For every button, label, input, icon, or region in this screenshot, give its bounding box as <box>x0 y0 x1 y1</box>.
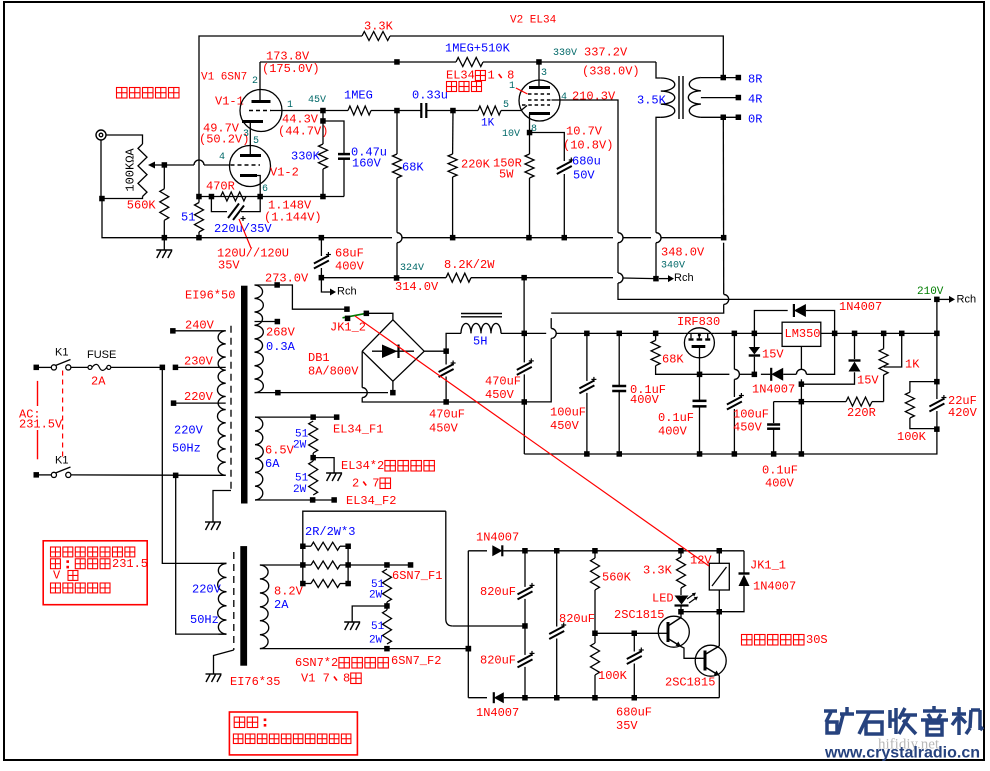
svg-text:6SN7_F2: 6SN7_F2 <box>391 654 441 668</box>
svg-text:V1 6SN7: V1 6SN7 <box>201 72 247 84</box>
wire hop to out leg <box>806 333 834 374</box>
transformer EI96 shield dashed <box>230 326 232 491</box>
label 210V <box>917 286 944 298</box>
EI96 HV winding <box>255 285 264 393</box>
junction jack ground <box>99 196 105 202</box>
wire jack sleeve down <box>100 140 102 199</box>
svg-text:560K: 560K <box>127 199 157 213</box>
junction 210V out <box>934 297 940 303</box>
watermark hifidiy <box>878 737 940 753</box>
wire to EL34 plate node <box>483 61 656 63</box>
svg-text:(44.7V): (44.7V) <box>278 124 328 138</box>
svg-text:3.3K: 3.3K <box>364 19 394 33</box>
svg-text:68uF: 68uF <box>335 246 364 260</box>
svg-text:3.5K: 3.5K <box>637 93 667 107</box>
label EL34_F1 <box>333 422 383 436</box>
wire 68K gate leads <box>655 333 657 340</box>
wire 68uF bottom <box>320 268 322 278</box>
junction bus 150R <box>526 235 532 241</box>
svg-text:6: 6 <box>262 184 268 195</box>
label DB1 <box>308 351 330 365</box>
label JK1_2 <box>330 320 366 334</box>
junction cathode node <box>257 194 263 200</box>
wire 220u loop <box>211 197 227 212</box>
svg-text:50Hz: 50Hz <box>172 441 201 455</box>
junction 0R ground <box>721 115 727 121</box>
wire 2R a leads <box>303 545 311 547</box>
junction 314V node <box>319 275 325 281</box>
resistor 3.3K feedback <box>362 32 390 41</box>
wire 820c top <box>556 551 558 627</box>
label 150R <box>493 156 522 170</box>
wire 3.3K to OPT 8R tap <box>390 36 723 78</box>
ground symbol EI76 <box>206 674 222 682</box>
wire 0.33u to 220K node <box>426 110 453 112</box>
label pin 6 <box>262 184 268 195</box>
wire 8.2V bottom tap <box>260 648 468 650</box>
wire wiper to grid V1-2 part2 <box>204 164 230 166</box>
wire pin8 to 680u <box>530 133 565 162</box>
junction rail 1K tap <box>899 331 905 337</box>
label 470uF first <box>429 407 465 421</box>
wire 150R bottom <box>529 178 531 238</box>
wire 68K bottom lead <box>396 178 398 233</box>
wire 2R bank right bus <box>347 546 349 583</box>
label 231.5V <box>19 417 63 431</box>
junction 51b bottom <box>310 497 316 503</box>
svg-text:LM350: LM350 <box>785 327 821 341</box>
junction heater to delay <box>466 646 472 652</box>
junction 22uF top <box>934 379 940 385</box>
junction pin8 node <box>527 130 533 136</box>
svg-text:220K: 220K <box>461 157 491 171</box>
wire screen feed cont <box>524 277 613 279</box>
svg-text:15V: 15V <box>857 373 879 387</box>
label K1 lower <box>55 455 68 467</box>
junction 680uF top <box>632 631 638 637</box>
resistor 51 2W b <box>309 461 318 495</box>
label 3.3K delay <box>643 563 673 577</box>
svg-text:1N4007: 1N4007 <box>476 530 519 544</box>
wire B+ rail seg2 <box>556 332 684 334</box>
resistor 68K gate <box>651 340 660 365</box>
junction bottom rail 820b <box>522 695 528 701</box>
wire screen line to 210V line <box>618 283 931 299</box>
wire 100uF1 top <box>586 333 588 381</box>
wire hop screen over Rch wire <box>618 273 623 283</box>
arrow Rch B+ <box>659 275 674 282</box>
regulator LM350 <box>782 322 821 346</box>
label pin 4 <box>561 92 567 103</box>
wire pot bottom to jack ground <box>102 197 143 199</box>
wire 1K tap L <box>884 333 902 367</box>
wire screen feed down <box>523 278 525 334</box>
OPT secondary coil <box>688 78 701 118</box>
wire 8.2V top tap <box>260 564 303 566</box>
legend line1 <box>234 717 266 728</box>
wire jack to pot top <box>106 135 143 144</box>
svg-text:EI76*35: EI76*35 <box>230 675 280 689</box>
svg-text:330V: 330V <box>553 48 577 59</box>
label V2 EL34 <box>510 15 557 27</box>
label 220V lower <box>192 582 222 596</box>
label EL34_F2 <box>346 494 396 508</box>
junction bottom rail 820c <box>554 695 560 701</box>
wire LED to Q1 collector <box>680 606 682 612</box>
resistor 470R <box>221 192 246 201</box>
label 420V <box>948 406 978 420</box>
label 2SC1815 Q2 <box>665 675 715 689</box>
pentode V2 EL34 <box>519 80 560 121</box>
wire 100uF2 below hop <box>733 379 735 397</box>
ground symbol heater <box>326 473 342 481</box>
svg-text:51: 51 <box>181 210 195 224</box>
svg-text:450V: 450V <box>733 420 763 434</box>
junction fuse node <box>160 365 166 371</box>
svg-text:6.5V: 6.5V <box>265 443 295 457</box>
junction bus 680u <box>562 235 568 241</box>
label 210.3V <box>572 89 616 103</box>
wire 268V tap stub <box>255 321 278 323</box>
junction primary common <box>173 473 179 479</box>
switch K1 lower <box>51 467 71 478</box>
svg-text:1MEG: 1MEG <box>344 88 373 102</box>
wire 68K below bus <box>396 243 398 278</box>
svg-text:231.5: 231.5 <box>112 557 148 571</box>
svg-text:2: 2 <box>252 76 258 87</box>
ground symbol EI96 <box>205 522 221 530</box>
wire out down <box>936 333 938 381</box>
wire diode loop <box>754 311 787 334</box>
junction JK1_2 arm pivot <box>345 316 351 322</box>
svg-text:K1: K1 <box>55 347 68 359</box>
wire 0.1uF3 bottom <box>773 429 775 454</box>
wire shield to ground <box>213 491 231 523</box>
wire 100K top <box>594 633 596 643</box>
junction 330K top <box>320 118 326 124</box>
svg-text:(1.144V): (1.144V) <box>264 210 322 224</box>
svg-text:JK1_1: JK1_1 <box>750 558 786 572</box>
EI96 heater winding 6.5V <box>255 417 263 500</box>
wire 1K top <box>883 333 885 348</box>
label EL34 heater pins <box>352 476 391 490</box>
label 2Wd <box>369 635 383 647</box>
label 0R <box>748 112 762 126</box>
wire 22uF bottom lead <box>936 411 938 429</box>
label 220V tap <box>184 390 214 404</box>
label 314.0V <box>395 280 439 294</box>
label another channel <box>117 88 180 99</box>
wire to 0.47u top <box>323 121 344 154</box>
capacitor 100uF 450V first <box>579 377 596 394</box>
potentiometer 100K A <box>138 144 164 197</box>
svg-text:100uF: 100uF <box>733 407 769 421</box>
svg-text:JK1_2: JK1_2 <box>330 320 366 334</box>
label 5H <box>473 334 487 348</box>
svg-text:680uF: 680uF <box>616 705 652 719</box>
svg-text:2SC1815: 2SC1815 <box>614 608 664 622</box>
fuse FUSE 2A <box>88 364 111 370</box>
label 3.5K <box>637 93 667 107</box>
resistor 100K delay <box>591 643 600 675</box>
junction relay bottom node <box>717 609 723 615</box>
junction bus to OPT ground <box>721 235 727 241</box>
resistor 68K <box>393 154 402 178</box>
terminal AC neutral <box>34 472 40 478</box>
wire rail through to LM area <box>714 332 734 334</box>
label 820uF a <box>480 585 516 599</box>
svg-text:1N4007: 1N4007 <box>753 579 796 593</box>
label 400V source <box>658 424 688 438</box>
label 100K right <box>897 430 927 444</box>
label 220u/35V <box>214 222 272 236</box>
label K1 upper <box>55 347 68 359</box>
wire 51 bottom <box>198 232 200 238</box>
wire V1-2 cathode lead pin6 <box>257 176 260 197</box>
svg-text:820uF: 820uF <box>559 612 595 626</box>
svg-text:2W: 2W <box>369 590 383 602</box>
label 268V <box>266 325 296 339</box>
wire Rch drop <box>321 278 324 292</box>
wire EL34 screen pin4 line <box>552 100 619 233</box>
svg-text:337.2V: 337.2V <box>584 45 628 59</box>
wire fuse to 230V tap <box>111 366 163 368</box>
svg-text:LED: LED <box>652 591 674 605</box>
wire 820c bottom <box>556 639 558 698</box>
capacitor 22uF 420V <box>929 395 946 412</box>
junction bridge AC bottom <box>390 390 396 396</box>
capacitor 100uF 450V second <box>727 393 744 410</box>
OPT primary coil 3.5K <box>661 78 675 117</box>
transformer EI76 core <box>240 546 247 666</box>
capacitor 0.1uF third <box>767 425 780 429</box>
label 1N4007 delay top <box>476 530 519 544</box>
svg-text:(175.0V): (175.0V) <box>262 62 320 76</box>
wire screen line below bus <box>617 243 619 273</box>
transistor Q2 2SC1815 <box>695 645 726 676</box>
label 348.0V <box>661 245 705 259</box>
label pin 5 <box>253 136 259 147</box>
label 49.7V <box>203 121 240 135</box>
label 100uF second <box>733 407 769 421</box>
label 1N4007 loop <box>839 300 882 314</box>
junction top rail relay <box>717 548 723 554</box>
resistor 2R a <box>311 542 340 550</box>
wire 150R top <box>529 133 531 155</box>
svg-text:7: 7 <box>372 476 379 490</box>
label 6SN7_F2 <box>391 654 441 668</box>
label (338.0V) <box>582 64 640 78</box>
watermark url <box>824 745 980 762</box>
junction rail 68K <box>653 331 659 337</box>
junction bottom rail 100K <box>592 695 598 701</box>
annotation relay link line <box>355 316 709 566</box>
junction bottom rail ADJ <box>799 451 805 457</box>
annotation line to 220u <box>239 219 251 248</box>
LED <box>675 593 699 606</box>
wire relay top <box>718 551 720 564</box>
svg-text:V1-1: V1-1 <box>215 94 244 108</box>
wire ground drop to bus <box>102 199 164 238</box>
resistor 220R <box>846 397 872 406</box>
junction 2R lt <box>300 544 306 550</box>
label 8.2K/2W <box>444 258 495 272</box>
label Rch B+ <box>674 272 694 284</box>
svg-text:Rch: Rch <box>957 294 977 306</box>
wire node to 0.33u <box>397 110 421 112</box>
svg-text:220R: 220R <box>847 406 876 420</box>
wire 0R down to bus <box>722 117 724 237</box>
wire diode loop right <box>806 311 835 334</box>
junction neg rail 470uF <box>443 399 449 405</box>
capacitor 0.33u <box>421 103 426 118</box>
transformer EI76 shield dashed <box>233 552 235 650</box>
svg-text:0.1uF: 0.1uF <box>762 463 798 477</box>
label (175.0V) <box>262 62 320 76</box>
resistor 1K divider <box>879 349 888 375</box>
label 230V <box>184 354 214 368</box>
svg-text:50V: 50V <box>573 168 595 182</box>
terminal EL34_F1 <box>334 414 340 420</box>
junction out diode loop <box>832 331 838 337</box>
wire Q2 collector up <box>718 612 720 646</box>
wire V1-1 plate lead pin2 <box>259 62 261 102</box>
note text line3 <box>53 569 78 583</box>
label 0.3A <box>266 340 296 354</box>
wire EL34_F2 tap <box>255 499 334 501</box>
wire bridge plus up to choke <box>446 333 461 351</box>
label delay time <box>742 633 828 647</box>
svg-text:(10.8V): (10.8V) <box>563 138 613 152</box>
svg-text:www.crystalradio.cn: www.crystalradio.cn <box>824 745 980 762</box>
wire zener to diode <box>761 373 770 375</box>
terminal EL34_F2 <box>331 497 337 503</box>
wire 680u bottom <box>563 174 565 238</box>
label 2A lower <box>274 598 289 612</box>
wire hop screen line over bus <box>618 233 623 243</box>
junction 2R rm <box>345 562 351 568</box>
wire 820a bottom <box>524 599 526 626</box>
wire source line to zener <box>739 373 754 375</box>
wire neg rail to line B <box>446 401 524 403</box>
svg-text:820uF: 820uF <box>480 585 516 599</box>
label 400V 0.1uF first <box>630 393 660 407</box>
wire neutral to switch <box>36 474 51 476</box>
junction 2R lb <box>300 581 306 587</box>
terminal 268V tap <box>275 319 281 325</box>
capacitor 470uF 450V second <box>517 358 534 375</box>
svg-text:400V: 400V <box>658 424 688 438</box>
wire 230V tap <box>175 366 225 368</box>
svg-text:680u: 680u <box>572 154 601 168</box>
wire 820b top <box>524 626 526 655</box>
label FUSE <box>87 349 116 361</box>
svg-text:0.3A: 0.3A <box>266 340 296 354</box>
label 220K <box>461 157 491 171</box>
junction bus left rail <box>196 235 202 241</box>
wire ADJ below hop <box>800 379 802 384</box>
junction zener top rail <box>752 331 758 337</box>
wire 68K top lead <box>396 111 398 155</box>
label V1 6SN7 <box>201 72 247 84</box>
svg-text:100uF: 100uF <box>550 405 586 419</box>
junction rail 100uF1 <box>584 331 590 337</box>
label pin 3 <box>541 68 547 79</box>
wire 0.1uF3 top <box>773 402 775 423</box>
label AC: <box>19 407 41 421</box>
svg-text:Rch: Rch <box>337 286 357 298</box>
wire 51 leads <box>198 197 200 203</box>
svg-text:268V: 268V <box>266 325 296 339</box>
note text line2 <box>51 557 149 571</box>
capacitor 680uF 35V <box>627 648 644 665</box>
wire 560K bottom <box>594 590 596 633</box>
wire x524 to bottom rail <box>523 402 525 454</box>
wire zener1 top <box>753 333 755 347</box>
terminal 6SN7_F2 node <box>466 646 472 652</box>
junction rail 100uF2 <box>732 331 738 337</box>
svg-text:10.7V: 10.7V <box>566 124 603 138</box>
label 10V <box>502 129 520 140</box>
terminal AC live <box>34 365 40 371</box>
junction bridge plus <box>443 348 449 354</box>
capacitor 220u/35V <box>228 204 246 222</box>
wire out to bottom rail <box>801 429 937 454</box>
svg-text:4R: 4R <box>748 92 762 106</box>
svg-text:340V: 340V <box>661 260 685 271</box>
junction bottom rail 0.1uF3 <box>771 451 777 457</box>
svg-text:230V: 230V <box>184 354 214 368</box>
terminal 0R <box>736 115 742 121</box>
wire relay diode top <box>743 567 745 573</box>
wire bridge plus <box>424 350 446 352</box>
annotation AC bracket <box>37 381 39 459</box>
transformer EI96 core <box>241 286 248 504</box>
svg-text:15V: 15V <box>762 347 784 361</box>
wire hop over ADJ pin <box>796 369 806 374</box>
wire 100K bottom <box>594 675 596 698</box>
wire bridge minus down <box>361 351 363 387</box>
label 240V <box>185 318 215 332</box>
label 1K <box>481 118 495 130</box>
wire bridge minus to neg rail <box>362 398 446 402</box>
svg-text:68K: 68K <box>402 160 424 174</box>
junction row 330K <box>320 194 326 200</box>
wire 68K to source line <box>656 366 700 375</box>
junction B+ Rch <box>653 276 659 282</box>
label EL34 pins note2 <box>447 82 482 92</box>
svg-text:68K: 68K <box>662 352 684 366</box>
transistor Q1 2SC1815 <box>658 616 689 647</box>
label 51c <box>371 579 385 591</box>
wire source down <box>699 358 701 375</box>
wire switch to fuse <box>71 366 88 368</box>
label 1N4007 relay <box>753 579 796 593</box>
label 15V first <box>762 347 784 361</box>
resistor 330K <box>319 144 328 169</box>
wire 22uF top lead <box>936 382 938 399</box>
label 337.2V <box>584 45 628 59</box>
svg-text:V1-2: V1-2 <box>270 165 299 179</box>
svg-text:0.33u: 0.33u <box>412 88 448 102</box>
wire node to 1K <box>453 110 478 112</box>
OPT core <box>679 76 683 119</box>
svg-text:100KΩA: 100KΩA <box>124 148 138 192</box>
label 1MEG+510K <box>445 41 511 55</box>
svg-text:35V: 35V <box>616 719 638 733</box>
resistor 2R b <box>311 561 340 569</box>
resistor 560K <box>591 558 600 590</box>
